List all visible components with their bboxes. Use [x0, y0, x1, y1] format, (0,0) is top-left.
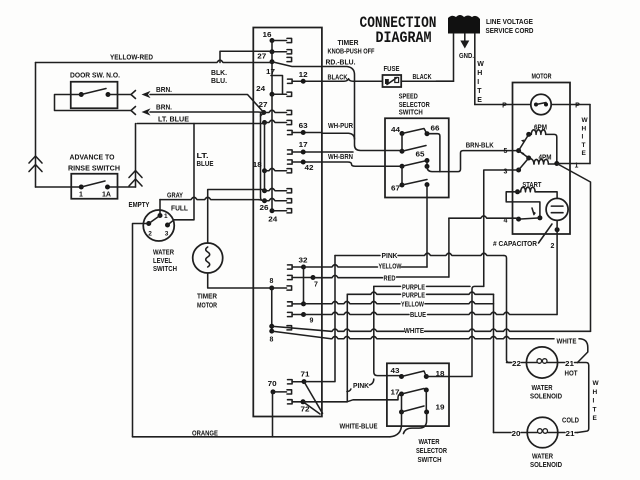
svg-text:BLUE: BLUE: [197, 161, 214, 168]
motor 5 blades: [519, 134, 529, 158]
svg-text:H: H: [477, 70, 482, 77]
svg-text:EMPTY: EMPTY: [129, 202, 150, 209]
svg-text:E: E: [593, 415, 598, 422]
svg-text:WHITE-BLUE: WHITE-BLUE: [340, 424, 378, 431]
svg-text:43: 43: [391, 368, 400, 375]
svg-text:44: 44: [391, 127, 400, 134]
timer terminal y=190.75 (timer motor top): [262, 188, 267, 193]
svg-text:26: 26: [260, 205, 269, 212]
water level blade 2-1: [149, 216, 160, 224]
line voltage service cord: [448, 15, 480, 34]
wire door switch left loop: [55, 95, 131, 111]
svg-text:8: 8: [270, 337, 274, 344]
svg-text:TIMER: TIMER: [197, 294, 217, 301]
motor capacitor circle: [546, 198, 568, 220]
svg-text:I: I: [582, 134, 584, 141]
blade 17: [402, 389, 425, 395]
selector mid-right vertical: [425, 390, 427, 412]
svg-text:GRAY: GRAY: [167, 193, 183, 200]
blade 43-18: [402, 371, 427, 377]
svg-text:16: 16: [263, 32, 272, 39]
svg-text:WHITE: WHITE: [557, 339, 577, 346]
svg-text:SELECTOR: SELECTOR: [399, 102, 430, 109]
svg-text:FULL: FULL: [171, 206, 189, 213]
timer node y=303.9: [292, 303, 303, 305]
svg-text:21: 21: [566, 431, 575, 438]
svg-text:YELLOW: YELLOW: [379, 264, 402, 271]
svg-text:67: 67: [391, 186, 400, 193]
svg-text:24: 24: [268, 217, 277, 224]
svg-text:63: 63: [299, 123, 308, 130]
wire door switch right to connector: [108, 94, 131, 96]
speed selector node WH-BRN entry: [400, 164, 405, 169]
svg-text:BLUE: BLUE: [410, 312, 426, 319]
svg-text:T: T: [593, 406, 597, 413]
svg-text:BRN.: BRN.: [156, 105, 172, 112]
wire 17 left out: [347, 394, 402, 402]
svg-text:YELLOW: YELLOW: [401, 302, 424, 309]
svg-text:PURPLE: PURPLE: [402, 285, 425, 292]
connector pair BRN lower: [131, 107, 136, 115]
water selector switch box: [387, 363, 449, 426]
advance to rinse switch right drop with chevrons: [135, 124, 137, 188]
motor protector P circle: [531, 94, 551, 114]
svg-text:12: 12: [299, 72, 308, 79]
hot water solenoid: [526, 347, 557, 378]
svg-text:E: E: [477, 97, 482, 104]
svg-text:YELLOW-RED: YELLOW-RED: [110, 55, 153, 62]
svg-text:WATER: WATER: [532, 454, 553, 461]
blade node-151 up right: [402, 146, 426, 152]
svg-text:WATER: WATER: [153, 250, 174, 257]
water level terminal 1: [158, 213, 163, 218]
wire: cord right lead (WHITE) down to motor P: [474, 34, 476, 105]
rinse switch blade: [81, 181, 105, 187]
svg-text:GND.: GND.: [459, 53, 474, 60]
door switch box: [71, 82, 118, 109]
svg-text:24: 24: [256, 86, 265, 93]
svg-text:MOTOR: MOTOR: [197, 303, 217, 310]
svg-text:BLACK: BLACK: [413, 74, 432, 81]
svg-text:21: 21: [565, 361, 574, 368]
svg-text:SWITCH: SWITCH: [418, 457, 442, 464]
water level terminal 3: [165, 223, 170, 228]
svg-text:72: 72: [301, 407, 310, 414]
timer bus 32 down: [303, 267, 305, 304]
svg-text:RD.-BLU.: RD.-BLU.: [326, 60, 356, 67]
advance to rinse switch left drop with chevrons: [35, 63, 37, 188]
svg-text:32: 32: [299, 258, 308, 265]
svg-text:E: E: [582, 150, 587, 157]
wire 71 riser to PINK: [304, 256, 335, 382]
wire motor 3 drop: [484, 170, 519, 286]
svg-text:7: 7: [314, 282, 318, 289]
wire branch to timer 27 top: [220, 51, 272, 62]
junction RD-BLU/BLACK down to WH-PUR: [354, 82, 356, 139]
svg-text:DIAGRAM: DIAGRAM: [376, 29, 432, 47]
timer motor coil squiggle: [206, 247, 210, 267]
water level switch body: [143, 210, 174, 241]
svg-text:5: 5: [504, 148, 508, 155]
wire 21 bracket to cold 21: [578, 363, 589, 433]
wire up to timer 70: [272, 392, 275, 437]
wire P bracket down to terminal 1: [589, 105, 591, 164]
timer node pair y=326/331: [269, 324, 274, 329]
svg-text:I: I: [593, 398, 595, 405]
timer left bus B (LT.BLUE down to 18): [264, 123, 266, 191]
blade node-166 up right: [402, 161, 427, 167]
svg-text:LT.: LT.: [197, 153, 209, 160]
svg-text:65: 65: [416, 152, 425, 159]
wire GRAY: terminal 1 to timer 26: [159, 200, 161, 216]
svg-text:42: 42: [305, 165, 314, 172]
timer bus 8 down: [271, 288, 273, 331]
svg-text:2: 2: [551, 243, 555, 250]
selector bottom-left node: [399, 410, 404, 415]
connector pair BRN upper: [131, 91, 136, 99]
svg-text:BRN-BLK: BRN-BLK: [466, 143, 494, 150]
speed selector right bottom node: [425, 182, 430, 187]
svg-text:WH-BRN: WH-BRN: [328, 154, 353, 161]
blade 67 up right: [402, 180, 427, 186]
svg-text:17: 17: [299, 142, 308, 149]
svg-text:8: 8: [270, 278, 274, 285]
wire 43 drop vertical: [374, 286, 402, 375]
wire: cord left lead to fuse BLACK node: [436, 34, 454, 82]
svg-text:PINK: PINK: [382, 253, 398, 260]
rinse switch terminal 1A: [105, 185, 110, 190]
wire 66 down to BRN-BLK row: [427, 134, 440, 172]
svg-text:W: W: [582, 117, 589, 124]
svg-text:1: 1: [164, 213, 168, 220]
svg-text:WH-PUR: WH-PUR: [328, 123, 353, 130]
wire 18-node down to YELLOW row: [426, 185, 428, 267]
wire capacitor bottom lead / terminal 2: [555, 227, 560, 232]
svg-text:H: H: [582, 125, 587, 132]
svg-text:1A: 1A: [102, 192, 111, 199]
svg-text:WATER: WATER: [532, 385, 553, 392]
wire 72 riser to PURPLE2: [303, 294, 347, 402]
timer motor body: [193, 243, 223, 273]
door switch contacts: [79, 92, 84, 97]
svg-text:LEVEL: LEVEL: [153, 258, 173, 265]
timer bus (top, x=272): [271, 41, 273, 95]
wire 18 out to vertical up: [426, 286, 483, 376]
svg-text:18: 18: [253, 162, 262, 169]
svg-text:PURPLE: PURPLE: [402, 292, 425, 299]
timer terminal LT.BLUE node: [262, 120, 267, 125]
svg-text:27: 27: [257, 54, 266, 61]
svg-text:9: 9: [310, 318, 314, 325]
svg-text:PINK: PINK: [353, 383, 369, 390]
svg-text:RED: RED: [384, 276, 396, 283]
svg-text:W: W: [477, 61, 484, 68]
water level terminal 2: [146, 221, 151, 226]
timer left bus A (27mid down to 26): [261, 114, 265, 201]
svg-text:RINSE SWITCH: RINSE SWITCH: [68, 166, 120, 173]
wire RD.-BLU. from timer: [322, 67, 355, 82]
speed selector left bus 67-up: [401, 166, 403, 185]
wire BRN upper to timer 27: [150, 95, 264, 113]
svg-text:DOOR SW. N.O.: DOOR SW. N.O.: [70, 73, 120, 80]
blade 44-66: [402, 129, 427, 134]
svg-text:T: T: [582, 142, 586, 149]
svg-text:MOTOR: MOTOR: [532, 74, 552, 81]
svg-text:70: 70: [268, 381, 277, 388]
svg-text:BLACK: BLACK: [328, 75, 348, 82]
svg-text:H: H: [593, 389, 598, 396]
wire BRN lower to timer 27: [150, 111, 264, 114]
svg-text:1: 1: [79, 192, 83, 199]
blade bottom: [402, 406, 425, 412]
svg-text:SWITCH: SWITCH: [153, 266, 177, 273]
motor 4 blade: [519, 218, 540, 219]
speed selector switch box: [385, 118, 449, 197]
svg-text:# CAPACITOR: # CAPACITOR: [493, 241, 537, 248]
door switch blade: [81, 89, 106, 95]
svg-text:20: 20: [512, 431, 521, 438]
svg-text:COLD: COLD: [562, 418, 579, 425]
rinse switch terminal 1: [79, 185, 84, 190]
cold water solenoid: [527, 417, 558, 448]
wire terminal 2 down to ORANGE run: [133, 224, 149, 437]
svg-text:SOLENOID: SOLENOID: [530, 462, 562, 469]
svg-text:2: 2: [148, 231, 152, 238]
svg-text:I: I: [477, 79, 479, 86]
switch blade 71: [304, 382, 323, 414]
speed selector right node (to motor 5): [425, 164, 430, 169]
svg-text:WATER: WATER: [419, 439, 440, 446]
speed selector left bus 44-down: [401, 134, 403, 152]
svg-text:WHITE: WHITE: [404, 328, 424, 335]
wire motor 4 feed: [449, 216, 519, 218]
svg-text:FUSE: FUSE: [384, 66, 400, 73]
svg-text:SOLENOID: SOLENOID: [530, 394, 562, 401]
svg-text:LT. BLUE: LT. BLUE: [158, 117, 189, 124]
svg-text:P: P: [575, 103, 580, 110]
svg-text:66: 66: [431, 126, 440, 133]
wire motor common diagonal down (to WHITE row): [557, 164, 591, 332]
svg-text:SWITCH: SWITCH: [399, 110, 423, 117]
wire timer 42 to speed selector: [322, 162, 402, 166]
svg-text:71: 71: [301, 372, 310, 379]
switch blade 72: [303, 402, 320, 414]
svg-text:TIMER: TIMER: [338, 40, 359, 47]
svg-text:HOT: HOT: [565, 371, 579, 378]
wire START left bracket to blade: [506, 192, 540, 218]
ground lead with arrow: [464, 34, 466, 42]
wire timer motor bottom lead to timer 8: [208, 273, 272, 288]
svg-text:W: W: [593, 380, 600, 387]
svg-text:P: P: [502, 103, 507, 110]
svg-text:SERVICE CORD: SERVICE CORD: [486, 28, 534, 35]
svg-text:3: 3: [165, 231, 169, 238]
speed selector node WH-PUR entry: [400, 149, 405, 154]
wire timer motor top lead to timer: [208, 190, 265, 244]
svg-text:BLK.: BLK.: [211, 70, 227, 77]
timer outline box: [253, 28, 322, 417]
svg-text:SPEED: SPEED: [399, 94, 418, 101]
svg-text:SELECTOR: SELECTOR: [416, 448, 447, 455]
motor common node: [554, 161, 559, 166]
svg-text:19: 19: [436, 405, 445, 412]
svg-text:22: 22: [512, 361, 521, 368]
timer terminal node y=62 (YELLOW-RED entry): [270, 59, 275, 64]
svg-text:BRN.: BRN.: [156, 87, 172, 94]
svg-text:KNOB-PUSH OFF: KNOB-PUSH OFF: [328, 49, 376, 56]
svg-text:T: T: [477, 88, 482, 95]
svg-text:ADVANCE TO: ADVANCE TO: [70, 155, 116, 162]
svg-text:LINE VOLTAGE: LINE VOLTAGE: [486, 19, 533, 26]
svg-text:BLU.: BLU.: [211, 78, 227, 85]
